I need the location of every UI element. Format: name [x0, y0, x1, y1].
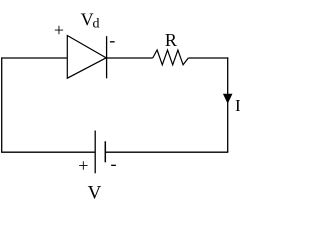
diode D (anode left, cathode right) [67, 36, 106, 79]
wire: top-left segment from left rail to diode anode [2, 57, 68, 59]
svg-text:+: + [78, 156, 88, 176]
wire: bottom-left segment from battery positive plate to left rail [2, 151, 96, 153]
svg-text:R: R [165, 30, 177, 50]
svg-text:I: I [235, 96, 241, 115]
svg-text:+: + [54, 20, 64, 40]
current arrow I (pointing down on right rail) [223, 94, 232, 103]
wire: top-middle segment from diode cathode to resistor [107, 57, 153, 59]
wire: right rail (vertical) [227, 57, 229, 152]
svg-text:d: d [93, 16, 100, 31]
wire: bottom-right segment from right rail to battery negative plate [106, 151, 229, 153]
svg-text:-: - [111, 154, 117, 174]
resistor R (zigzag) [153, 50, 189, 65]
svg-text:V: V [88, 183, 102, 204]
svg-text:-: - [109, 30, 115, 50]
battery V (long plate = +, short plate = -) [95, 131, 105, 174]
label: Vd (diode voltage) [81, 10, 100, 32]
wire: top-right segment from resistor to right rail [188, 57, 228, 59]
wire: left rail (vertical) [1, 57, 3, 152]
